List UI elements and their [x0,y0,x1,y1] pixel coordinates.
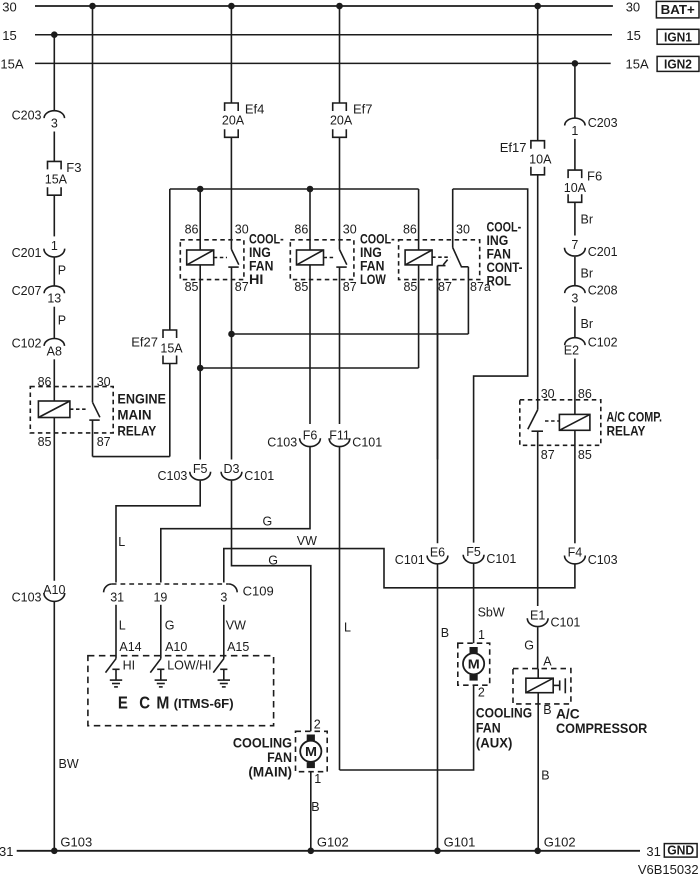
svg-text:F5: F5 [466,545,481,559]
A/C comp relay box [520,400,601,446]
wire C102-E2 to A/C relay coil [574,359,576,415]
fuse F3 15A [45,160,82,195]
junction bus30/Ef17 [534,3,541,10]
cooling fan LOW name [360,230,395,287]
svg-text:A15: A15 [227,640,249,654]
wire fan-low 87 down to F11 [339,267,341,424]
A/C comp relay coil [559,414,590,430]
fuse F6 10A [564,169,602,203]
motor cooling fan main [300,735,321,769]
svg-text:C208: C208 [588,284,618,298]
svg-text:15A: 15A [0,57,23,72]
svg-text:B: B [541,769,549,783]
wire C203-3 to fuse F3 [53,132,55,162]
svg-text:C103: C103 [588,553,618,567]
fuse Ef17 10A [500,6,552,175]
svg-text:15A: 15A [626,57,649,72]
wire Ef17 to A/C relay 30 [537,175,539,410]
svg-text:C101: C101 [244,469,274,483]
svg-text:COMPRESSOR: COMPRESSOR [556,720,647,736]
ECM switch HI [106,659,136,673]
svg-text:85: 85 [185,280,199,294]
svg-text:3: 3 [51,117,58,131]
svg-text:G: G [263,515,273,529]
connector C203 pin 1 [565,116,618,138]
engine main relay coil wire 85 [53,418,55,581]
connector C101 pin F11 [329,428,382,449]
wire SbW F5-C101 to aux fan pin1 [474,564,505,643]
connector C101 pin D3 [221,462,274,483]
svg-text:C203: C203 [12,109,42,123]
wire 85/85 link line [200,367,418,369]
junction rail/fan-hi coil [197,186,204,193]
svg-text:E1: E1 [530,608,545,622]
svg-text:Ef17: Ef17 [500,140,527,155]
svg-text:F6: F6 [587,169,602,184]
svg-text:31: 31 [110,590,124,604]
svg-text:85: 85 [578,448,592,462]
svg-text:20A: 20A [330,114,353,128]
svg-text:C102: C102 [12,337,42,351]
svg-text:1: 1 [571,124,578,138]
wire bus15 to C203 pin3 [53,35,55,111]
junction fan-hi-87/87a line [228,331,235,338]
svg-text:C201: C201 [588,245,618,259]
wire Br F6 to C201-7 [575,202,593,235]
svg-text:LOW/HI: LOW/HI [167,659,211,673]
svg-text:HI: HI [123,659,136,673]
relay cooling fan LOW [290,189,356,294]
svg-text:M: M [156,692,169,712]
svg-text:C207: C207 [12,284,42,298]
wire B compressor to G102 [538,703,551,851]
svg-text:31: 31 [646,844,660,859]
svg-text:86: 86 [38,375,52,389]
svg-text:HI: HI [249,271,263,287]
A/C comp relay contact 87 [532,431,544,606]
svg-text:F3: F3 [66,160,81,175]
svg-text:1: 1 [478,628,485,642]
svg-text:(ITMS-6F): (ITMS-6F) [174,696,234,711]
svg-text:GND: GND [667,843,694,858]
A/C compressor name [556,705,647,736]
svg-text:20A: 20A [222,114,245,128]
svg-text:C103: C103 [12,590,42,604]
A/C comp relay name [607,408,663,438]
wire VW ECM pin3 to F4-C103 [224,534,575,588]
svg-text:A14: A14 [119,640,141,654]
terminal box BAT+ [656,1,699,18]
engine main relay name [117,390,166,438]
svg-text:IGN1: IGN1 [664,30,692,45]
ground ECM A14 [110,669,122,687]
wire L F11-C101 to aux fan [340,447,352,770]
engine main relay switch blade [93,402,100,417]
svg-text:G102: G102 [544,834,576,849]
svg-text:C101: C101 [352,436,382,450]
svg-text:30: 30 [2,0,16,14]
junction bus30/Ef4 [228,3,235,10]
svg-text:87: 87 [541,448,555,462]
svg-text:30: 30 [343,222,357,236]
svg-text:Br: Br [581,213,594,227]
svg-text:1: 1 [314,772,321,786]
ground G102 compressor [534,834,575,854]
svg-text:D3: D3 [224,462,240,476]
svg-text:C101: C101 [551,616,581,630]
A/C compressor label A [543,655,552,669]
svg-text:Br: Br [581,267,594,281]
bus 15A (IGN2) [0,57,649,72]
ground G102 main fan [308,834,349,854]
svg-text:13: 13 [47,292,61,306]
wire Br C201-7 to C208-3 [575,257,593,286]
svg-text:LOW: LOW [360,271,387,287]
wire fan-hi 87 down to D3 [231,267,233,459]
ECM switch A15 [213,659,224,673]
svg-text:10A: 10A [529,152,552,166]
A/C compressor box [513,669,571,704]
ground G103 [51,834,92,854]
connector C102 pin A8 [12,337,65,359]
bus 31 (GND) [0,844,661,859]
svg-text:L: L [119,619,126,633]
svg-text:86: 86 [185,222,199,236]
svg-text:C203: C203 [588,116,618,130]
A/C compressor clutch coil [526,669,553,704]
wire C203-1 to F6 [574,139,576,170]
svg-text:85: 85 [294,280,308,294]
wire VW C109-3 to ECM A15 [224,605,250,659]
wire fan-control-87 upper [437,266,439,544]
svg-text:IGN2: IGN2 [664,57,692,72]
svg-text:3: 3 [571,292,578,306]
fan control link [432,256,450,258]
wire bus30 to engine main relay switch [92,6,94,402]
svg-text:F6: F6 [303,428,318,442]
wire L C109-31 to ECM A14 [116,605,142,659]
A/C comp relay blade [528,410,538,429]
wire aux fan pin2 to fan-low relay [340,685,485,770]
svg-text:G103: G103 [60,834,92,849]
engine main relay coil [38,401,70,418]
ground ECM A10 [155,669,167,687]
A/C comp relay link [545,420,559,422]
svg-text:85: 85 [403,280,417,294]
svg-text:Ef7: Ef7 [353,101,373,116]
wire F3 to C201 pin1 [53,195,55,236]
svg-text:A8: A8 [47,344,62,358]
wire fan-control 30 feed [453,189,528,543]
cooling fan aux box [458,643,490,685]
terminal box IGN2 [657,56,699,71]
junction bus15/C203 [51,31,58,38]
svg-text:F5: F5 [193,462,208,476]
fuse Ef7 20A [330,6,373,137]
engine main relay box [30,387,113,433]
svg-text:E6: E6 [430,546,445,560]
svg-text:2: 2 [478,686,485,700]
svg-text:C101: C101 [486,552,516,566]
svg-text:FAN: FAN [476,719,501,735]
A/C compressor clutch plates [553,678,565,693]
connector C203 pin 3 [12,109,65,131]
svg-text:2: 2 [314,717,321,731]
wire fan-control 87 to E6 [437,459,439,461]
wire Ef27 to relay coil rail [169,189,171,330]
svg-text:RELAY: RELAY [607,422,646,438]
svg-text:C103: C103 [267,436,297,450]
svg-text:A10: A10 [43,583,65,597]
svg-text:G101: G101 [444,834,476,849]
engine main relay contact 87 [89,420,99,457]
svg-text:Ef27: Ef27 [131,335,158,350]
svg-text:VW: VW [226,619,246,633]
engine main relay terminal labels [38,375,111,449]
svg-text:BW: BW [59,757,79,771]
svg-text:RELAY: RELAY [117,422,156,438]
connector C103 pin F6 [267,428,320,449]
svg-text:L: L [344,621,351,635]
ground ECM A15 [218,669,230,687]
fuse Ef4 20A [222,6,265,137]
connector C103 pin F4 [565,546,618,567]
svg-text:1: 1 [51,239,58,253]
connector C101 pin E1 [527,608,580,629]
ECM switch LOW/HI [150,659,211,673]
wire A/C coil 85 to F4 [574,430,576,543]
svg-text:10A: 10A [564,181,587,195]
bus 30 (BAT+) [2,0,640,14]
connector C103 pin F5 [158,462,211,483]
svg-text:87: 87 [235,280,249,294]
wire C102-A8 to engine main relay coil [53,359,55,401]
svg-text:30: 30 [97,375,111,389]
engine main relay link [70,408,88,410]
svg-text:30: 30 [235,222,249,236]
svg-text:F4: F4 [568,546,583,560]
wire G C109-19 to ECM A10 [161,605,188,659]
svg-text:C103: C103 [158,469,188,483]
wire fan-hi coil 85 down [199,265,201,460]
junction bus30/Ef7 [336,3,343,10]
wire Ef7 to fan-low relay 30 [339,137,341,249]
cooling fan aux name [476,704,532,750]
fan control coil [405,189,432,265]
wire Ef4 to fan-hi relay 30 [230,137,232,249]
wire 87 to Ef27 [93,364,170,457]
junction bus15A/C203 [572,60,579,67]
svg-text:15A: 15A [160,341,183,355]
svg-text:COOLING: COOLING [476,704,532,720]
junction rail/fan-low coil [307,186,314,193]
svg-text:86: 86 [403,222,417,236]
svg-text:87: 87 [438,280,452,294]
wire P C201-1 to C207-13 [54,257,66,286]
fuse Ef27 15A [131,330,183,364]
wire B main fan to G102 [311,772,322,851]
svg-text:C102: C102 [588,336,618,350]
svg-text:Br: Br [581,317,594,331]
cooling fan main name [233,734,292,779]
svg-text:V6B15032: V6B15032 [638,862,699,877]
svg-text:ENGINE: ENGINE [117,390,166,406]
wire G D3-C101 to main fan [232,481,311,732]
drawing number V6B15032 [638,862,699,877]
svg-text:M: M [468,657,480,672]
connector C101 pin E6 [395,546,448,567]
connector C201 pin 7 [565,238,618,259]
connector C201 pin 1 [12,239,65,260]
svg-text:B: B [441,626,449,640]
wire BW A10-C103 to G103 [54,602,79,851]
svg-text:85: 85 [38,435,52,449]
ECM name [118,692,234,712]
cooling fan main box [296,731,328,771]
cooling fan HI name [249,230,284,287]
connector C207 pin 13 [12,284,65,306]
wire aux fan pin1 label [478,628,485,642]
wire main fan pin2 label [314,717,321,731]
relay coil feed rail [170,188,419,190]
wire bus15A to C203 pin1 [574,63,576,118]
wire G F6-C103 to ECM pin19 [161,447,310,583]
svg-text:A10: A10 [165,640,187,654]
svg-text:86: 86 [294,222,308,236]
connector C103 pin A10 [12,583,66,604]
svg-text:P: P [58,314,66,328]
relay cooling fan control box [399,240,480,280]
ECM box [88,656,274,726]
svg-text:B: B [311,800,319,814]
wire Br C208-3 to C102-E2 [575,307,593,338]
wire G E1-C101 to compressor [524,627,537,668]
svg-text:C101: C101 [395,553,425,567]
terminal box IGN1 [657,29,699,44]
terminal box GND [664,843,697,858]
motor cooling fan aux [463,647,484,681]
wire 87/87a link line [232,333,469,335]
svg-text:(AUX): (AUX) [476,734,513,750]
svg-text:M: M [305,744,317,759]
wire L F5-C103 to ECM pin31 [116,481,200,583]
svg-text:L: L [118,535,125,549]
svg-text:G: G [165,619,175,633]
svg-text:SbW: SbW [478,606,505,620]
svg-text:BAT+: BAT+ [661,2,696,17]
svg-text:C201: C201 [12,246,42,260]
fan control contact 87a [461,267,469,334]
A/C comp relay terminal labels [541,387,592,462]
svg-text:3: 3 [220,590,227,604]
svg-text:VW: VW [297,534,317,548]
svg-text:30: 30 [626,0,640,14]
wire P C207-13 to C102-A8 [54,307,66,339]
svg-text:30: 30 [456,222,470,236]
svg-text:15: 15 [2,28,16,43]
connector C102 pin E2 [564,336,618,358]
svg-text:A: A [543,655,552,669]
svg-text:G102: G102 [317,834,349,849]
svg-text:G: G [524,639,534,653]
svg-text:30: 30 [541,387,555,401]
svg-text:87: 87 [97,435,111,449]
svg-text:ROL: ROL [487,272,512,288]
relay cooling fan HI [180,189,248,294]
svg-text:7: 7 [571,238,578,252]
connector C101 pin F5 (SbW) [463,545,516,566]
svg-text:E: E [118,692,128,712]
svg-text:P: P [58,263,66,277]
svg-text:MAIN: MAIN [117,406,151,422]
svg-text:Ef4: Ef4 [245,101,265,116]
svg-text:G: G [268,553,278,567]
ground G101 [434,834,475,854]
svg-text:F11: F11 [329,428,350,442]
junction bus30/engine-main-relay [89,3,96,10]
fan control blade [453,248,462,267]
fan control switch 30 [452,189,454,248]
svg-text:B: B [543,703,551,717]
svg-text:E2: E2 [564,344,579,358]
svg-text:(MAIN): (MAIN) [248,763,292,779]
connector C109 [104,584,274,605]
svg-text:31: 31 [0,844,14,859]
wire fan-low coil 85 down to F6 [309,265,311,424]
fan control name [487,218,523,288]
connector C208 pin 3 [565,284,618,306]
svg-text:86: 86 [578,387,592,401]
bus 15 (IGN1) [2,28,641,43]
fan control contact 87 [438,260,448,460]
fan control terminal labels [403,222,491,294]
junction fan-hi-85/relay3-85 line [197,365,204,372]
svg-text:C109: C109 [243,584,274,599]
svg-text:15A: 15A [45,172,68,186]
wire B E6-C101 to G101 [438,565,450,851]
svg-text:C: C [139,692,150,712]
svg-text:15: 15 [626,28,640,43]
svg-text:87: 87 [343,280,357,294]
wire fan-control coil 85 to join [418,265,420,368]
svg-text:19: 19 [153,590,167,604]
